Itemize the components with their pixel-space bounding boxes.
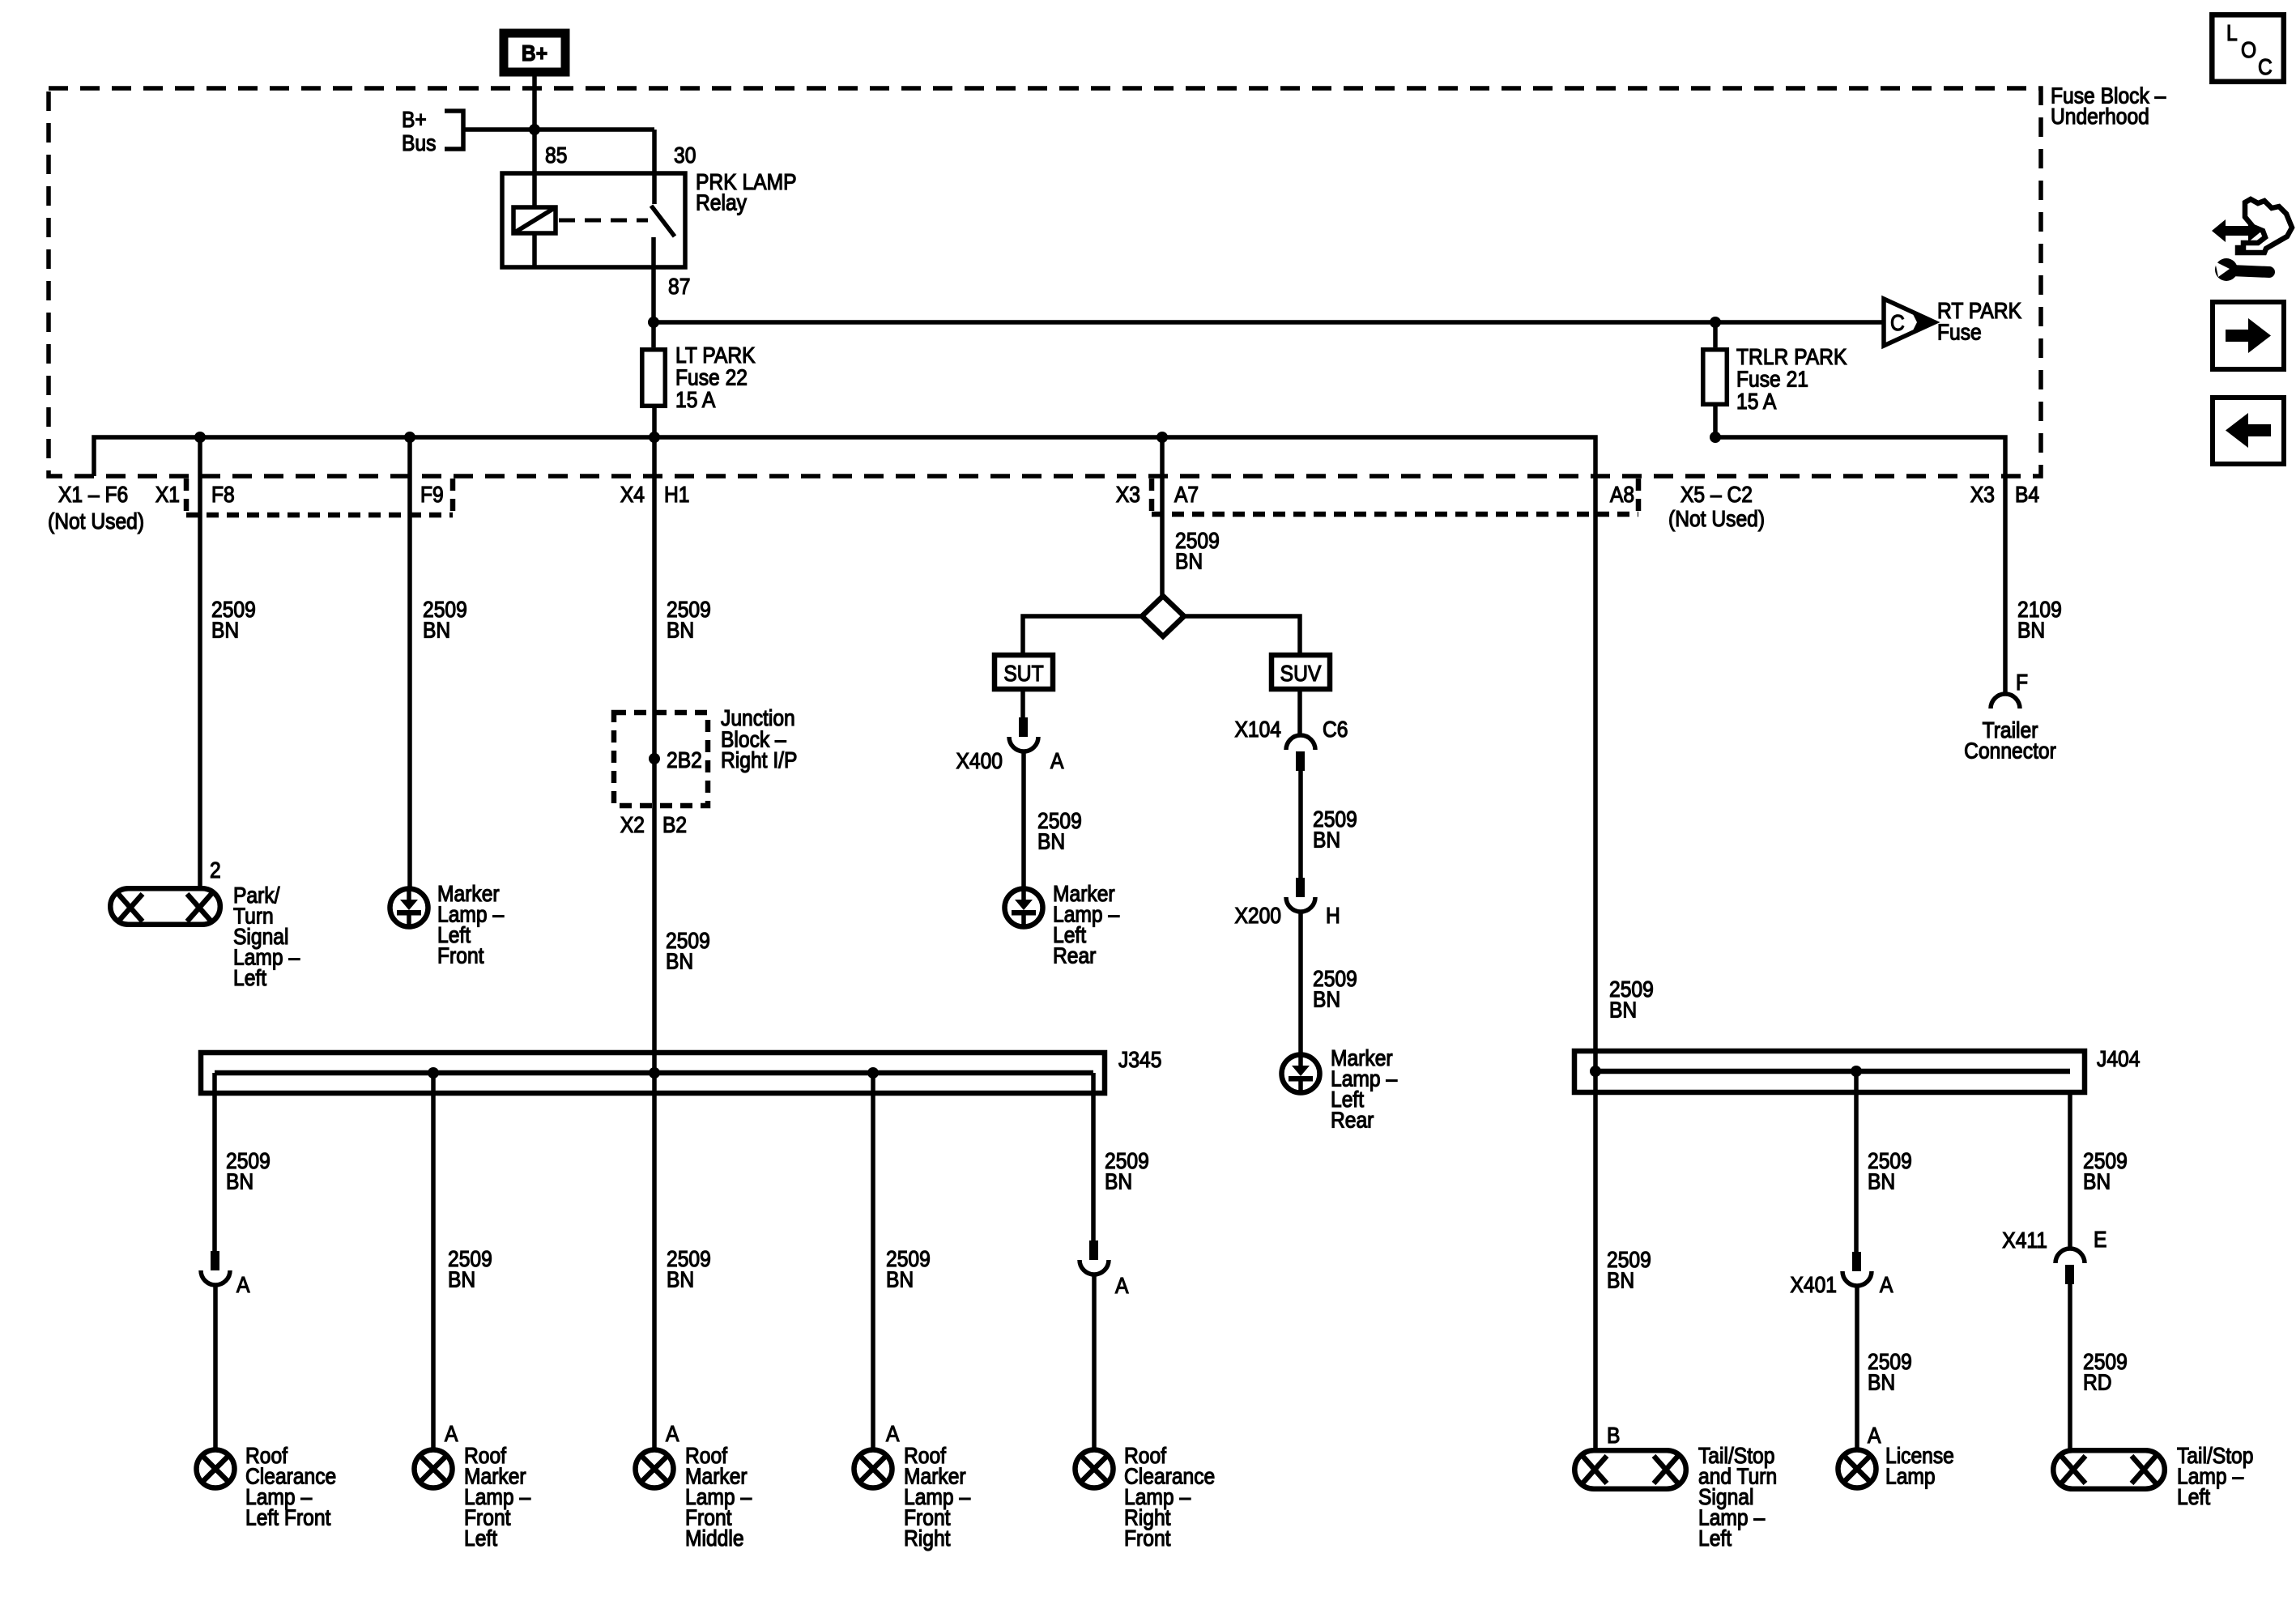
- svg-text:BN: BN: [1868, 1369, 1895, 1395]
- wire LT fuse to bus: [652, 408, 657, 437]
- pin 30 lead: [652, 130, 657, 204]
- roof marker lamp front left: [415, 1450, 453, 1488]
- svg-text:B: B: [1607, 1423, 1620, 1449]
- label 2509 BN A7: [1175, 528, 1220, 574]
- license lamp label: [1885, 1443, 1954, 1489]
- svg-text:A: A: [666, 1421, 679, 1447]
- svg-text:A7: A7: [1174, 482, 1199, 508]
- marker lamp left front label: [437, 881, 504, 968]
- LT PARK fuse 22: [642, 350, 666, 406]
- svg-text:X200: X200: [1234, 903, 1281, 929]
- svg-text:L: L: [2226, 20, 2238, 46]
- svg-text:Underhood: Underhood: [2051, 104, 2149, 130]
- wire F8 drop: [198, 437, 202, 886]
- svg-text:BN: BN: [1868, 1168, 1895, 1194]
- fuse block underhood dashed border: [49, 88, 2041, 476]
- junction bar J345: [201, 1053, 1105, 1093]
- svg-text:Left: Left: [464, 1526, 498, 1551]
- svg-text:X401: X401: [1790, 1272, 1837, 1298]
- svg-text:87: 87: [668, 274, 690, 300]
- svg-text:X1 – F6: X1 – F6: [58, 482, 128, 508]
- wire B+ to relay coil: [532, 76, 537, 207]
- svg-text:F9: F9: [420, 482, 444, 508]
- tail/stop and turn signal lamp left (oval): [1574, 1450, 1686, 1489]
- svg-text:BN: BN: [423, 617, 450, 643]
- relay label: [696, 169, 797, 215]
- label 2509 BN J404 drop1: [1607, 1247, 1651, 1293]
- wire drop5 lower: [1092, 1274, 1097, 1449]
- label 2509 BN X200: [1313, 966, 1357, 1012]
- label 2509 BN F8: [211, 597, 256, 643]
- label 2509 BN below junction block: [666, 928, 710, 974]
- splice diamond: [1142, 596, 1184, 636]
- svg-text:BN: BN: [2017, 617, 2045, 643]
- svg-text:Rear: Rear: [1053, 943, 1097, 968]
- label X411 E: [2002, 1227, 2106, 1253]
- svg-text:SUV: SUV: [1280, 661, 1322, 687]
- svg-text:BN: BN: [886, 1266, 914, 1292]
- svg-text:BN: BN: [1175, 548, 1203, 574]
- wire 87 to RT PARK fuse triangle: [654, 320, 1884, 325]
- svg-text:Front: Front: [437, 943, 484, 968]
- SUT box: [995, 655, 1053, 689]
- svg-text:F: F: [2016, 670, 2028, 696]
- wire X400 to marker lamp: [1021, 751, 1026, 890]
- roof marker lamp front right: [854, 1450, 892, 1488]
- marker lamp left rear (SUT): [1005, 889, 1043, 927]
- svg-text:15 A: 15 A: [675, 387, 716, 413]
- svg-text:30: 30: [674, 143, 696, 168]
- svg-text:RD: RD: [2083, 1369, 2112, 1395]
- B+ Bus label: [402, 107, 436, 156]
- svg-text:Lamp: Lamp: [1885, 1463, 1936, 1489]
- node 87 junction: [648, 317, 659, 328]
- svg-text:X400: X400: [956, 748, 1003, 774]
- park/turn label: [233, 883, 300, 991]
- svg-text:Right: Right: [904, 1526, 951, 1551]
- svg-text:BN: BN: [1609, 997, 1637, 1023]
- tail/stop turn label: [1698, 1443, 1777, 1551]
- svg-text:A: A: [1880, 1272, 1893, 1298]
- svg-text:X411: X411: [2002, 1228, 2047, 1253]
- svg-text:B2: B2: [662, 812, 687, 838]
- svg-text:X4: X4: [620, 482, 645, 508]
- connector drop5 A: [1080, 1240, 1109, 1274]
- svg-text:2: 2: [210, 857, 221, 883]
- back arrow icon box: [2213, 398, 2284, 464]
- wire drop5 J345 upper: [1091, 1073, 1096, 1240]
- svg-text:X1: X1: [155, 482, 180, 508]
- svg-text:F8: F8: [211, 482, 235, 508]
- hand wrench icon: [2212, 199, 2292, 281]
- marker lamp left rear (SUV): [1282, 1055, 1320, 1093]
- trailer connector label: [1964, 717, 2056, 764]
- wire drop1 J345 upper: [212, 1073, 217, 1251]
- svg-text:15 A: 15 A: [1736, 389, 1777, 415]
- svg-text:(Not Used): (Not Used): [48, 509, 144, 534]
- svg-text:X3: X3: [1116, 482, 1140, 508]
- B+ Bus bracket: [445, 111, 654, 149]
- LT PARK fuse label: [675, 343, 756, 413]
- connector sub-box right (X3): [1152, 479, 1638, 514]
- forward arrow icon box: [2213, 302, 2284, 369]
- wire J404 drop2 upper: [1854, 1071, 1859, 1252]
- wire X200 to marker lamp: [1298, 912, 1303, 1056]
- connector X400-A inline: [1009, 717, 1038, 751]
- relay coil: [513, 207, 556, 233]
- label 2509 BN drop2: [448, 1246, 492, 1292]
- svg-text:H1: H1: [664, 482, 689, 508]
- marker lamp left front (F9): [390, 889, 428, 927]
- svg-text:A: A: [236, 1272, 250, 1298]
- bus B wire: [1715, 437, 2005, 696]
- pin 87 lead: [651, 237, 656, 347]
- LOC icon box: [2212, 15, 2284, 82]
- svg-text:BN: BN: [1313, 827, 1340, 853]
- label 2509 BN drop4: [886, 1246, 931, 1292]
- TRLR PARK fuse 21: [1703, 350, 1727, 405]
- wire J404 drop3 upper: [2068, 1092, 2072, 1249]
- svg-text:BN: BN: [448, 1266, 475, 1292]
- label 2509 BN F9: [423, 597, 467, 643]
- svg-text:A8: A8: [1610, 482, 1634, 508]
- svg-text:X2: X2: [620, 812, 645, 838]
- wire drop1 lower: [213, 1285, 218, 1449]
- connector X104-C6 inline: [1286, 735, 1315, 771]
- label 2509 RD: [2083, 1349, 2128, 1395]
- svg-text:B+: B+: [402, 107, 427, 133]
- junction block label: [721, 705, 797, 773]
- svg-text:A: A: [1868, 1423, 1881, 1449]
- svg-text:2B2: 2B2: [667, 747, 702, 773]
- label X400 A: [956, 748, 1063, 774]
- wire X4-H1 drop: [652, 437, 657, 1073]
- svg-text:BN: BN: [1105, 1168, 1132, 1194]
- relay PRK LAMP box: [502, 173, 685, 267]
- svg-text:A: A: [445, 1421, 458, 1447]
- svg-text:A: A: [1050, 748, 1064, 774]
- svg-text:A: A: [886, 1421, 900, 1447]
- node junction at 85 lead: [529, 124, 540, 135]
- label X1-F6 not used: [48, 482, 144, 534]
- label X2 B2: [620, 812, 687, 838]
- svg-text:85: 85: [545, 143, 567, 168]
- RT PARK fuse label: [1937, 298, 2021, 345]
- svg-text:B+: B+: [522, 40, 547, 66]
- svg-text:(Not Used): (Not Used): [1668, 506, 1765, 532]
- label 2509 BN lower drop2: [1868, 1349, 1912, 1395]
- svg-text:Left: Left: [233, 965, 267, 991]
- svg-text:Connector: Connector: [1964, 738, 2056, 764]
- svg-text:O: O: [2241, 37, 2256, 63]
- connector drop1 A: [201, 1251, 230, 1285]
- marker lamp left rear label (SUT): [1053, 881, 1119, 968]
- roof clearance lamp left front: [197, 1450, 235, 1488]
- svg-text:BN: BN: [211, 617, 239, 643]
- svg-text:BN: BN: [1607, 1267, 1634, 1293]
- roof marker front right label: [904, 1443, 970, 1551]
- trailer connector arc: [1991, 694, 2020, 709]
- wire drop3 J345: [652, 1073, 657, 1449]
- roof clearance right front label: [1124, 1443, 1215, 1551]
- svg-text:J345: J345: [1118, 1047, 1161, 1073]
- tail/stop lamp label: [2177, 1443, 2253, 1510]
- relay dashed link: [559, 219, 648, 223]
- svg-text:X5 – C2: X5 – C2: [1680, 482, 1753, 508]
- svg-text:Middle: Middle: [685, 1526, 744, 1551]
- roof marker lamp front middle: [636, 1450, 674, 1488]
- wire A7 drop to diamond: [1160, 437, 1165, 596]
- svg-text:X3: X3: [1970, 482, 1995, 508]
- wire SUT to X400: [1020, 691, 1025, 717]
- B4 wire labels 2109 BN: [2017, 597, 2062, 643]
- svg-text:BN: BN: [667, 617, 694, 643]
- svg-text:Left Front: Left Front: [245, 1504, 331, 1530]
- label 2509 BN drop5: [1105, 1148, 1149, 1194]
- svg-text:H: H: [1326, 903, 1340, 929]
- bus junction dots: [194, 432, 206, 443]
- label 2509 BN J404 drop2: [1868, 1148, 1912, 1194]
- junction bar J404: [1574, 1051, 2085, 1092]
- junction block right I/P dashed box: [614, 713, 708, 806]
- wire drop4 J345: [871, 1073, 875, 1449]
- license lamp: [1838, 1450, 1876, 1488]
- wire diamond right branch to SUV: [1184, 616, 1300, 653]
- marker lamp left rear label (SUV): [1331, 1045, 1397, 1133]
- label 2509 BN J404 drop3: [2083, 1148, 2128, 1194]
- label 2509 BN drop3: [667, 1246, 711, 1292]
- roof marker front middle label: [685, 1443, 752, 1551]
- label X104 C6: [1234, 717, 1348, 743]
- connector X401-A: [1842, 1252, 1872, 1286]
- fuse block label: [2051, 83, 2166, 129]
- bus A wire: [94, 437, 1595, 1071]
- svg-text:BN: BN: [1037, 828, 1065, 854]
- label 2509 BN X4: [667, 597, 711, 643]
- svg-text:BN: BN: [667, 1266, 694, 1292]
- wire X104 to X200: [1298, 771, 1303, 878]
- label 2509 BN drop1: [226, 1148, 270, 1194]
- node 2B2: [649, 753, 660, 764]
- svg-text:B4: B4: [2015, 482, 2039, 508]
- wire coil to box bottom: [532, 233, 537, 267]
- svg-text:A: A: [1115, 1273, 1129, 1299]
- connector X411-E: [2055, 1249, 2085, 1284]
- wire diamond left branch to SUT: [1023, 616, 1142, 653]
- RT PARK fuse off-page triangle C: [1884, 299, 1935, 346]
- wire TRLR fuse to bus B: [1713, 406, 1718, 437]
- connector X200-H inline: [1286, 878, 1315, 912]
- svg-text:Fuse: Fuse: [1937, 319, 1982, 345]
- svg-text:Rear: Rear: [1331, 1107, 1374, 1133]
- svg-text:BN: BN: [226, 1168, 253, 1194]
- park/turn signal lamp left (oval): [110, 888, 219, 925]
- svg-text:Left: Left: [2177, 1484, 2211, 1510]
- wire drop2 J345: [431, 1073, 436, 1449]
- relay switch blade: [651, 206, 675, 236]
- wire J404 drop3 lower: [2068, 1284, 2072, 1449]
- label 2509 BN SUV: [1313, 806, 1357, 853]
- svg-text:C: C: [2258, 54, 2273, 80]
- SUV box: [1272, 655, 1330, 689]
- label X401 A: [1790, 1272, 1893, 1298]
- svg-text:C: C: [1890, 310, 1905, 336]
- roof marker front left label: [464, 1443, 530, 1551]
- svg-text:BN: BN: [666, 948, 693, 974]
- label X200 H: [1234, 903, 1340, 929]
- svg-text:Front: Front: [1124, 1526, 1171, 1551]
- svg-text:J404: J404: [2097, 1046, 2140, 1072]
- TRLR PARK fuse label: [1736, 344, 1847, 415]
- tail/stop lamp left (oval): [2053, 1450, 2165, 1489]
- TRLR PARK fuse junction: [1710, 317, 1721, 328]
- wire to TRLR fuse: [1713, 322, 1718, 347]
- wire J404 drop1: [1593, 1071, 1598, 1449]
- label 2509 BN A8: [1609, 977, 1654, 1023]
- svg-text:BN: BN: [2083, 1168, 2111, 1194]
- svg-text:BN: BN: [1313, 986, 1340, 1012]
- J404 inner dots: [1590, 1066, 1601, 1077]
- B+ terminal: [504, 33, 565, 72]
- J345 inner dots: [428, 1067, 439, 1079]
- svg-text:C6: C6: [1323, 717, 1348, 743]
- roof clearance left front label: [245, 1443, 336, 1530]
- connector sub-box left (X1): [186, 479, 453, 515]
- roof clearance lamp right front: [1076, 1450, 1114, 1488]
- wire SUV to X104: [1297, 691, 1302, 736]
- svg-text:X104: X104: [1234, 717, 1281, 743]
- wire J404 drop2 lower: [1855, 1286, 1859, 1449]
- wire F9 drop: [407, 437, 412, 890]
- svg-text:Right I/P: Right I/P: [721, 747, 797, 773]
- label X5-C2 not used: [1668, 482, 1765, 532]
- svg-text:E: E: [2094, 1227, 2106, 1253]
- svg-text:SUT: SUT: [1003, 661, 1043, 687]
- svg-text:Left: Left: [1698, 1526, 1732, 1551]
- svg-text:Relay: Relay: [696, 189, 748, 215]
- label 2509 BN X400: [1037, 808, 1082, 854]
- svg-text:Bus: Bus: [402, 130, 436, 156]
